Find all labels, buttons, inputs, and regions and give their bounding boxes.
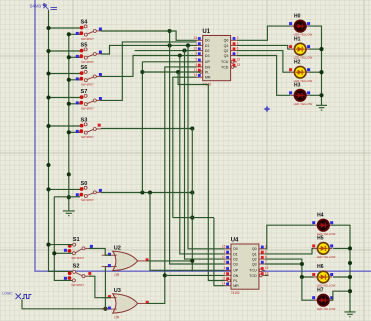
svg-text:12: 12 (265, 266, 269, 270)
svg-text:S5: S5 (81, 43, 88, 49)
svg-text:H2: H2 (294, 59, 301, 65)
LED H4 (314, 212, 336, 235)
svg-text:LED-YELLOW: LED-YELLOW (317, 255, 336, 259)
junction on x=54.3 branch at S1 row (52, 251, 56, 255)
indicator square left of H1 (289, 45, 292, 48)
terminal symbol at top of bus (44, 4, 49, 10)
LED H7 (314, 287, 336, 310)
junction clock / U3 input B / riser to U2 (103, 307, 107, 311)
wire: S7 up to U1 D0 row (101, 42, 197, 101)
svg-text:D1: D1 (205, 44, 210, 48)
wire: bus to S0 top throw (49, 188, 81, 190)
indicator square U2 output (146, 258, 149, 261)
junction rail / H2 (319, 70, 323, 74)
wire: H2 cathode (309, 71, 321, 73)
wire: bus to S1 top throw (49, 244, 73, 246)
svg-text:SW-SPDT: SW-SPDT (71, 283, 84, 287)
wire: S3/S0 drop down to blue TCU net (191, 129, 193, 272)
LED H2 (291, 59, 313, 82)
wire: S2 output to U3 input A (89, 276, 111, 298)
svg-text:DN: DN (205, 65, 211, 69)
wire: H1 cathode (309, 48, 321, 50)
wire: left bus x=48.5 down to S2 pole (49, 10, 73, 271)
svg-text:DN: DN (233, 274, 239, 278)
svg-text:U4: U4 (231, 237, 239, 243)
wire: H5 cathode (333, 247, 350, 249)
wire: U4 TCD stub (265, 274, 268, 276)
junction rail / H1 (319, 47, 323, 51)
IC U4 74192 counter (222, 237, 269, 294)
wire: chain to S6 bottom throw (69, 79, 80, 81)
svg-text:S4: S4 (81, 20, 89, 26)
svg-text:TCU: TCU (221, 60, 229, 64)
wire: U4 Q1 to H5 (265, 248, 314, 254)
wire: clock riser to U2 input B (105, 267, 111, 309)
wire: MR branch horizontal (173, 217, 214, 219)
svg-text:PL: PL (205, 70, 209, 74)
wire: U3 output riser to U1 DN (147, 67, 197, 304)
svg-text:OR: OR (114, 273, 120, 277)
svg-text:MR: MR (205, 76, 211, 80)
wire: U4 Q0 to H4 (265, 225, 314, 249)
indicator square left of S3 (76, 130, 79, 133)
switch S3 (79, 118, 101, 139)
svg-text:D2: D2 (233, 258, 238, 262)
junction riser / H6 branch (300, 275, 304, 279)
wire: riser A S4 net to U4 D3 (170, 31, 225, 264)
svg-text:Q2: Q2 (224, 49, 229, 53)
wire: riser up to U1 MR (173, 77, 197, 217)
svg-text:S0: S0 (81, 181, 88, 187)
LED H3 (291, 83, 313, 106)
wire: U1 Q1 to H1 (237, 45, 291, 49)
junction dot on rail y=263 (348, 261, 352, 265)
wire: riser C D3 net to U4 D1 (180, 56, 225, 254)
indicator square at S3 output (98, 124, 101, 127)
switch S4 (79, 20, 101, 41)
svg-text:74192: 74192 (231, 291, 240, 295)
junction on chain at S7 bottom row (67, 102, 71, 106)
wire: ground chain x=68.8 (68, 34, 70, 197)
svg-text:LED-YELLOW: LED-YELLOW (317, 307, 336, 311)
junction S4 output / riser A (168, 29, 172, 33)
indicator square at S5 output (99, 51, 102, 54)
indicator square right of H4 (330, 221, 333, 224)
indicator square left of S0 (76, 193, 79, 196)
wire: U1 D2 feed row (135, 50, 197, 52)
wire: clock output to OR gates (22, 300, 105, 309)
svg-text:H4: H4 (317, 212, 324, 218)
wire: H4-H7 cathode rail (332, 225, 350, 312)
indicator square U3 input B (108, 307, 111, 310)
wire: bus to S5 top throw (49, 50, 81, 52)
junction Q3 / riser (300, 262, 304, 266)
svg-text:SW-SPDT: SW-SPDT (81, 198, 94, 202)
junction on chain at S4 bottom row (67, 32, 71, 36)
indicator square left of H3 (289, 91, 292, 94)
wire: S0 bottom row to left branch (54, 196, 69, 198)
svg-text:15: 15 (222, 245, 226, 249)
IC U1 74192 counter (194, 29, 241, 86)
indicator square at S7 output (99, 97, 102, 100)
svg-text:10: 10 (222, 255, 226, 259)
svg-text:S6: S6 (81, 65, 88, 71)
wire: left branch down to S2 bottom throw (54, 197, 72, 281)
wire: riser down to H7 (302, 277, 314, 300)
svg-text:UP: UP (205, 60, 211, 64)
wire: S4 to U1 D0 (170, 31, 197, 40)
junction on chain at S3 bottom row (67, 130, 71, 134)
indicator square left of S6 (76, 77, 79, 80)
svg-text:SW-SPDT: SW-SPDT (81, 60, 94, 64)
indicator square right of H3 (307, 91, 310, 94)
svg-text:5: 5 (224, 266, 226, 270)
indicator square right of H1 (307, 45, 310, 48)
svg-text:TCU: TCU (249, 269, 257, 273)
indicator square at S4 output (99, 28, 102, 31)
wire: U1 Q3 to H3 (237, 56, 291, 96)
junction U2 output / S0 drop (190, 259, 194, 263)
svg-text:S4M3: S4M3 (30, 4, 42, 9)
wire: U1 UP feed row (142, 61, 196, 63)
svg-text:Q0: Q0 (224, 39, 229, 43)
wire: H3 cathode (309, 94, 321, 96)
junction rail / H5 (348, 246, 352, 250)
svg-text:S3: S3 (81, 118, 88, 124)
svg-text:UP: UP (233, 269, 239, 273)
wire: chain to S0 bottom throw (69, 196, 80, 198)
svg-text:D3: D3 (205, 54, 210, 58)
svg-text:H7: H7 (317, 287, 324, 293)
svg-text:MR: MR (233, 284, 239, 288)
svg-text:2: 2 (237, 41, 239, 45)
svg-text:11: 11 (194, 68, 198, 72)
svg-text:TCD: TCD (221, 65, 229, 69)
junction PL row / link to U4 PL (176, 70, 180, 74)
indicator square left of S1 (64, 249, 67, 252)
svg-text:D3: D3 (233, 262, 238, 266)
wire: S4 output (101, 30, 170, 32)
svg-text:14: 14 (222, 282, 226, 286)
svg-text:12: 12 (237, 58, 241, 62)
indicator square on S1 output (90, 245, 93, 248)
wire: U4 Q3 join riser (265, 263, 302, 265)
svg-text:7: 7 (237, 51, 239, 55)
indicator square right of H2 (307, 68, 310, 71)
svg-text:S1: S1 (73, 237, 80, 243)
svg-text:Q1: Q1 (252, 252, 257, 256)
svg-text:H1: H1 (294, 36, 301, 42)
svg-text:H5: H5 (317, 236, 324, 242)
switch S2 (68, 263, 90, 287)
wire: drop to U4 MR (214, 218, 225, 286)
junction on bus at S3 row (46, 124, 50, 128)
junction rail / H3 (319, 93, 323, 97)
svg-text:SW-SPDT: SW-SPDT (81, 37, 94, 41)
junction S3 output / drop line (190, 126, 194, 130)
svg-text:SW-SPDT: SW-SPDT (81, 82, 94, 86)
wire: riser D D1 net to U4 D0 (188, 45, 225, 248)
svg-text:2: 2 (265, 250, 267, 254)
wire: bus to S7 top throw (49, 97, 81, 99)
junction U3 riser / U4 DN row (163, 273, 167, 277)
junction on bus at S0 row (46, 187, 50, 191)
svg-text:11: 11 (222, 276, 226, 280)
indicator square left of H7 (312, 296, 315, 299)
svg-text:D2: D2 (205, 49, 210, 53)
LED H0 (291, 13, 313, 36)
wire: riser S0 down to U4 UP (150, 193, 225, 271)
svg-text:Q0: Q0 (252, 247, 257, 251)
svg-text:TCD: TCD (249, 274, 257, 278)
svg-text:4: 4 (224, 271, 226, 275)
indicator square U3 input A (108, 295, 111, 298)
junction S0 row / riser to U4 UP (148, 190, 152, 194)
indicator square left of H0 (289, 22, 292, 25)
svg-text:13: 13 (265, 271, 269, 275)
svg-text:9: 9 (224, 260, 226, 264)
blue origin marker (264, 106, 271, 113)
indicator square at S6 output (99, 73, 102, 76)
wire: S3 output to drop line (101, 128, 192, 130)
indicator square left of H2 (289, 68, 292, 71)
svg-text:SW-SPDT: SW-SPDT (81, 135, 94, 139)
wire: S1 output to U2 input A (89, 248, 111, 255)
indicator square left of S5 (76, 55, 79, 58)
ground GND3 (344, 312, 355, 317)
svg-text:Q2: Q2 (252, 258, 257, 262)
svg-text:LED-YELLOW: LED-YELLOW (294, 102, 313, 106)
wire: stub to ground GND1 (68, 197, 70, 211)
svg-text:S7: S7 (81, 89, 88, 95)
svg-text:U2: U2 (114, 246, 121, 252)
indicator square left of S4 (76, 32, 79, 35)
wire: riser B D2 net to U4 D2 (185, 51, 225, 260)
junction riser / PL branch (140, 70, 144, 74)
switch S1 (68, 237, 90, 260)
indicator square right of H5 (330, 244, 333, 247)
ground GND2 (316, 105, 327, 110)
wire: bus to S6 top throw (49, 73, 81, 75)
junction on bus at S5 row (46, 49, 50, 53)
svg-text:U3: U3 (114, 288, 121, 294)
wire: clock to U3 input B (105, 308, 111, 310)
junction on bus at S7 row (46, 95, 50, 99)
junction dot on chain y=174.4 (67, 172, 71, 176)
switch S5 (79, 43, 101, 64)
indicator square left of S7 (76, 101, 79, 104)
svg-text:4: 4 (195, 63, 197, 67)
svg-text:6: 6 (237, 47, 239, 51)
svg-text:9: 9 (195, 51, 197, 55)
wire: S5 to U1 D1 (101, 45, 197, 54)
switch S6 (79, 65, 101, 86)
svg-text:Q3: Q3 (252, 262, 257, 266)
junction on bus at S6 row (46, 71, 50, 75)
wire: H6 cathode (333, 276, 350, 278)
svg-text:Q3: Q3 (224, 54, 229, 58)
svg-text:D0: D0 (205, 39, 210, 43)
indicator square left of H5 (312, 244, 315, 247)
ground GND1 (63, 211, 75, 216)
wire: U4 DN row horizontal (165, 274, 225, 276)
svg-text:13: 13 (237, 63, 241, 67)
svg-text:10: 10 (194, 47, 198, 51)
svg-text:3: 3 (237, 36, 239, 40)
indicator square U2 input A (108, 253, 111, 256)
OR gate U2 (102, 246, 147, 278)
wire: branch to S1 bottom throw (54, 252, 72, 254)
switch S7 (79, 89, 101, 110)
junction dot on bus y=165 (46, 163, 50, 167)
wire: PL net link down to U4 PL (178, 72, 225, 281)
LED H5 (314, 236, 336, 259)
LED H6 (314, 264, 336, 287)
wire: H7 cathode up to rail (329, 291, 350, 300)
junction on chain at S5 bottom row (67, 55, 71, 59)
wire: U1 Q0 to H0 (237, 26, 291, 40)
OR gate U3 (102, 288, 147, 320)
junction on chain at S6 bottom row (67, 78, 71, 82)
wire: U1 Q2 to H2 (237, 51, 291, 73)
svg-text:OR: OR (114, 316, 120, 320)
junction D1 row / riser D (186, 43, 190, 47)
junction rail / H7 (348, 289, 352, 293)
wire: U4 Q2 to H6 (265, 259, 314, 277)
svg-text:LOGIC: LOGIC (2, 292, 13, 296)
switch S0 (79, 181, 101, 202)
junction on bus at S4 row (46, 26, 50, 30)
junction S0 drop / MR branch (190, 216, 194, 220)
indicator square right of H6 (330, 273, 333, 276)
indicator square U3 output (146, 301, 149, 304)
svg-text:S2: S2 (73, 263, 80, 269)
indicator square right of H7 (330, 296, 333, 299)
junction D3 row / riser C (178, 53, 182, 57)
svg-text:PL: PL (233, 279, 237, 283)
svg-text:H6: H6 (317, 264, 324, 270)
junction chain/ground/S0 bottom row (67, 195, 71, 199)
junction S0 output / drop line (190, 190, 194, 194)
wire: riser S0 up to U1 UP row (141, 62, 143, 193)
wire: U2 output run (147, 260, 193, 262)
svg-text:1: 1 (224, 250, 226, 254)
indicator square right of H0 (307, 22, 310, 25)
wire: S6 to U1 D3 (101, 56, 197, 77)
junction riser A crosses D1 row (168, 43, 172, 47)
svg-text:14: 14 (194, 73, 198, 77)
wire: PL feed row (142, 71, 200, 73)
junction D2 row / riser B (182, 49, 186, 53)
svg-text:Q1: Q1 (224, 44, 229, 48)
junction bus / S1 top (46, 243, 50, 247)
indicator square on S2 output (88, 272, 91, 275)
indicator square at S0 output (99, 189, 102, 192)
indicator square left of S2 (64, 277, 67, 280)
indicator square U2 input B (108, 264, 111, 267)
svg-text:SW-SPDT: SW-SPDT (71, 256, 84, 260)
wire: chain to S5 bottom throw (69, 56, 80, 58)
indicator square left of H4 (312, 221, 315, 224)
svg-text:D1: D1 (233, 252, 238, 256)
svg-text:5: 5 (195, 58, 197, 62)
wire: bus to S3 top throw (49, 125, 81, 127)
wire: chain to S3 bottom throw (69, 131, 80, 133)
svg-text:H0: H0 (294, 13, 301, 19)
wire: bus to S4 top throw (49, 27, 81, 29)
junction S0 row / riser to UP and PL (140, 190, 144, 194)
svg-text:U1: U1 (202, 29, 210, 35)
svg-text:6: 6 (265, 255, 267, 259)
wire: S0 output (101, 192, 192, 194)
blue clock/TCU net wire (35, 0, 371, 271)
svg-text:SW-SPDT: SW-SPDT (81, 106, 94, 110)
junction rail / H6 (348, 275, 352, 279)
svg-text:H3: H3 (294, 83, 301, 89)
clock generator symbol (16, 294, 22, 300)
wire: chain to S4 bottom throw (69, 33, 80, 35)
indicator square left of H6 (312, 273, 315, 276)
wire: H0-H3 cathode rail (309, 26, 321, 105)
svg-text:7: 7 (265, 260, 267, 264)
svg-text:D0: D0 (233, 247, 238, 251)
wire: chain to S7 bottom throw (69, 103, 80, 105)
LED H1 (291, 36, 313, 59)
svg-text:15: 15 (194, 36, 198, 40)
